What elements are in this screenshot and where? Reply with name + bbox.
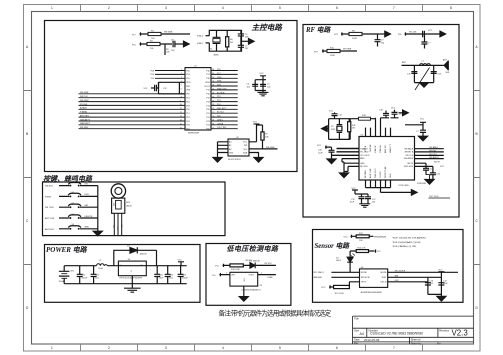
ground bypass (258, 92, 269, 95)
svg-text:R16 470K: R16 470K (231, 269, 241, 271)
svg-text:RF VCC: RF VCC (265, 263, 273, 265)
svg-text:5: 5 (279, 346, 281, 350)
svg-text:21: 21 (212, 112, 214, 114)
svg-text:D2 1N4148: D2 1N4148 (250, 260, 261, 262)
MCU left short pin wires (155, 71, 185, 79)
svg-text:A4: A4 (360, 332, 364, 336)
wire lv in (219, 273, 230, 276)
svg-text:VCC: VCC (144, 88, 149, 90)
svg-text:R11: R11 (352, 125, 356, 127)
svg-text:C?: C? (428, 42, 431, 44)
svg-text:8: 8 (181, 96, 182, 98)
svg-text:7: 7 (393, 346, 395, 350)
wire vcc cap loop (255, 76, 266, 93)
svg-text:15: 15 (180, 124, 182, 126)
node VCC ic topright (405, 119, 426, 137)
svg-text:22: 22 (212, 108, 214, 110)
svg-text:BC SCL: BC SCL (217, 112, 225, 114)
svg-text:28: 28 (212, 85, 214, 87)
svg-text:GND: GND (390, 173, 392, 178)
svg-text:TRTS: TRTS (361, 282, 367, 284)
svg-text:RESET A: RESET A (405, 151, 414, 154)
svg-text:SPI MOSI: SPI MOSI (361, 277, 370, 279)
svg-text:B: B (476, 132, 478, 136)
svg-text:16: 16 (180, 127, 182, 129)
svg-text:Revision: Revision (439, 328, 450, 332)
svg-text:104: 104 (381, 42, 385, 44)
inductor L1 (420, 60, 431, 65)
svg-text:VCC: VCC (253, 122, 258, 124)
SENSOR BLOCK (313, 230, 464, 303)
svg-text:P20: P20 (206, 109, 210, 111)
svg-text:P16: P16 (132, 44, 136, 46)
svg-text:6: 6 (336, 346, 338, 350)
wire xtal out (241, 40, 249, 42)
svg-text:FUN: FUN (85, 194, 90, 196)
svg-text:ANT KB/1: ANT KB/1 (80, 115, 90, 118)
svg-text:R15 150K: R15 150K (335, 293, 345, 295)
svg-text:RST: RST (186, 86, 191, 88)
svg-text:XGCLK: XGCLK (380, 171, 382, 178)
wire lna links (332, 148, 360, 155)
svg-text:RF RST: RF RST (429, 150, 437, 152)
svg-text:2: 2 (108, 346, 110, 350)
svg-text:WK BTN: WK BTN (45, 186, 53, 188)
svg-text:SPI CLK: SPI CLK (406, 155, 414, 157)
wire switch bus (97, 186, 99, 232)
capacitor C4 104 (247, 84, 259, 89)
svg-text:C5: C5 (267, 84, 270, 86)
svg-text:10K: 10K (265, 136, 269, 138)
capacitor C23 104 (91, 266, 100, 284)
svg-text:D: D (476, 306, 479, 310)
svg-text:Drawn by:: Drawn by: (411, 342, 422, 345)
capacitor C18 (379, 110, 389, 118)
svg-text:BZ1: BZ1 (126, 202, 131, 204)
op IC U5 detector (230, 272, 263, 291)
wire lv out (258, 274, 276, 276)
svg-text:3: 3 (165, 6, 167, 10)
resistor R6 1M (226, 30, 234, 51)
svg-text:WK KB/B: WK KB/B (266, 147, 275, 149)
svg-text:POWER 电路: POWER 电路 (46, 245, 88, 254)
MCU left pin names (186, 70, 191, 130)
svg-text:50R: 50R (446, 72, 450, 74)
capacitor C6 20P (238, 30, 249, 38)
svg-text:*R13? 16K(324.6K) 3.9K AA(96K: *R13? 16K(324.6K) 3.9K AA(96K)? (392, 237, 427, 240)
svg-text:WP: WP (244, 145, 248, 147)
MCU left wire labels (80, 92, 91, 129)
wire xtal2 (206, 35, 210, 37)
svg-text:AGSNPNM BGM A3M0: AGSNPNM BGM A3M0 (361, 291, 383, 294)
svg-text:A: A (476, 45, 479, 49)
svg-text:P56: P56 (186, 70, 190, 72)
svg-text:D3: D3 (336, 257, 339, 259)
svg-text:104: 104 (247, 86, 251, 88)
svg-text:SCL: SCL (244, 149, 249, 151)
svg-text:P3 CHK: P3 CHK (80, 104, 88, 106)
svg-text:备注:带*的元器件为选用或根据具体情况选定: 备注:带*的元器件为选用或根据具体情况选定 (219, 308, 332, 317)
titleblock verticals (367, 328, 438, 344)
wire sens right pins (388, 272, 458, 282)
svg-text:P22: P22 (206, 117, 210, 119)
NOTE + TITLEBLOCK (219, 308, 474, 345)
antenna tank loop wire (414, 65, 433, 82)
svg-text:VCC: VCC (317, 145, 322, 147)
capacitor C22 100uF (77, 266, 88, 284)
svg-text:CHN A: CHN A (217, 122, 224, 125)
svg-text:SPC NMO1: SPC NMO1 (313, 272, 324, 274)
svg-text:L1: L1 (422, 60, 425, 62)
svg-text:R14 4.7K: R14 4.7K (357, 248, 366, 250)
capacitor C13 104 (425, 280, 434, 285)
svg-text:VO: VO (140, 265, 143, 267)
reset loop wire (159, 82, 186, 94)
svg-text:19: 19 (212, 120, 214, 122)
svg-text:1: 1 (51, 6, 53, 10)
svg-text:ANT: ANT (443, 58, 448, 61)
svg-text:B?+: B?+ (213, 275, 217, 277)
svg-text:XTAL2: XTAL2 (197, 35, 204, 38)
svg-text:18: 18 (212, 124, 214, 126)
svg-text:P21: P21 (206, 113, 210, 115)
zone tick left (24, 91, 32, 265)
svg-text:C21: C21 (428, 169, 433, 171)
net arrow xtal rf (322, 126, 328, 132)
svg-text:20: 20 (212, 116, 214, 118)
svg-text:AND VD: AND VD (384, 145, 387, 153)
ground rf right (425, 180, 434, 185)
svg-text:4N8 BM6: 4N8 BM6 (313, 277, 322, 279)
svg-text:WK ADDR: WK ADDR (429, 156, 439, 159)
svg-text:104: 104 (267, 86, 271, 88)
svg-text:C: C (26, 219, 29, 223)
svg-text:A0: A0 (229, 141, 232, 144)
svg-text:XBB AB P3: XBB AB P3 (80, 118, 91, 121)
buzzer BZ1 (111, 184, 132, 235)
wire power bottom (64, 283, 187, 285)
svg-text:1M: 1M (230, 42, 233, 44)
svg-text:13: 13 (180, 116, 182, 118)
wire to arrow (175, 43, 184, 45)
svg-text:100R: 100R (330, 55, 335, 57)
wire eeprom left bus (218, 142, 229, 158)
svg-text:100uF: 100uF (182, 277, 188, 279)
svg-text:RF 电路: RF 电路 (305, 26, 331, 34)
svg-text:RF SMB: RF SMB (365, 170, 367, 178)
svg-text:104: 104 (169, 277, 173, 279)
svg-text:S-8: S-8 (244, 278, 246, 282)
svg-text:PKB KLN1: PKB KLN1 (217, 88, 227, 90)
resistor R15 150K (321, 282, 349, 295)
svg-text:FUN/B: FUN/B (45, 196, 52, 198)
RF BLOCK (303, 25, 459, 218)
svg-text:32M: 32M (331, 129, 335, 131)
resistor R18 (359, 117, 371, 120)
switch S2 (45, 192, 98, 198)
svg-text:1M: 1M (352, 128, 355, 130)
wire stub down (164, 44, 166, 55)
svg-text:5: 5 (181, 85, 182, 87)
svg-text:10uF: 10uF (159, 277, 164, 279)
svg-text:C9: C9 (381, 40, 384, 42)
crystal loop rf wire (329, 119, 351, 140)
net arrow bottom (411, 190, 417, 196)
svg-text:SB XX: SB XX (434, 162, 441, 164)
svg-text:VCC: VCC (438, 269, 443, 271)
svg-text:VCC: VCC (260, 73, 265, 75)
svg-text:10: 10 (180, 104, 182, 106)
net arrow rf2 (440, 31, 446, 37)
wire sens row1 (351, 235, 374, 238)
ground eeprom right (254, 158, 263, 163)
wire xtal1 (206, 42, 210, 44)
svg-text:C22: C22 (82, 275, 87, 277)
svg-text:WK KB/B: WK KB/B (164, 31, 173, 33)
svg-text:AGE Y AN: AGE Y AN (369, 168, 372, 178)
svg-text:100uF: 100uF (82, 277, 88, 279)
op IC U2 EEPROM (228, 139, 249, 156)
svg-text:OSC B: OSC B (380, 282, 387, 284)
wire rf row2 (322, 49, 357, 52)
svg-text:C17: C17 (338, 114, 343, 116)
svg-text:3V AA: 3V AA (59, 280, 65, 283)
wire bottom join (366, 188, 412, 193)
svg-text:P16: P16 (206, 78, 210, 80)
diode D2 1N4148 (250, 260, 276, 268)
svg-text:Sheet of: Sheet of (411, 338, 421, 342)
svg-text:(BUZ): (BUZ) (126, 206, 132, 208)
svg-text:XIN2: XIN2 (205, 82, 210, 84)
svg-text:A2/AB1: A2/AB1 (80, 107, 88, 110)
svg-text:MODE: MODE (381, 272, 388, 274)
block box key (43, 182, 226, 236)
svg-text:C12: C12 (163, 88, 168, 90)
svg-text:C22: C22 (437, 173, 442, 175)
svg-text:TEST: TEST (381, 277, 387, 279)
svg-text:TEST PT AN: TEST PT AN (384, 166, 387, 178)
svg-text:P54: P54 (150, 74, 154, 76)
wire row2 (140, 42, 173, 45)
svg-text:104: 104 (372, 201, 376, 203)
trimmer arrow (415, 68, 430, 91)
svg-text:WK ABLE: WK ABLE (429, 146, 438, 149)
svg-text:SPC MODE: SPC MODE (395, 270, 406, 272)
svg-text:主控电路: 主控电路 (252, 23, 284, 32)
svg-text:SBB BF/P1: SBB BF/P1 (80, 123, 91, 125)
svg-text:XTAL1: XTAL1 (197, 42, 204, 45)
svg-text:25: 25 (212, 96, 214, 98)
svg-text:ABT T/GN: ABT T/GN (45, 217, 55, 220)
svg-text:24: 24 (212, 100, 214, 102)
svg-text:5: 5 (279, 6, 281, 10)
svg-text:THB 23.01: THB 23.01 (375, 168, 377, 178)
wire rf row1 (341, 32, 378, 35)
wire row1 (140, 32, 191, 35)
svg-text:1N4148: 1N4148 (140, 254, 148, 256)
wire xtal to ic (350, 117, 383, 120)
svg-text:VSS: VSS (229, 152, 234, 154)
wire eeprom vcc (249, 124, 257, 142)
svg-text:6: 6 (336, 6, 338, 10)
capacitor C21 (430, 166, 441, 179)
crystal X1 4MHz (210, 30, 220, 51)
svg-text:RF VDD: RF VDD (360, 166, 368, 168)
svg-text:P11: P11 (206, 90, 210, 92)
svg-text:C16: C16 (438, 73, 443, 75)
svg-text:*R13 3 HK(HP)AA R (Y)/0.6K: *R13 3 HK(HP)AA R (Y)/0.6K (392, 241, 421, 244)
svg-text:9: 9 (180, 100, 181, 102)
RF IC left pin wires (332, 149, 360, 167)
svg-text:VCC: VCC (334, 34, 339, 36)
net arrow xtal (249, 39, 255, 45)
capacitor C9 (375, 34, 386, 47)
svg-text:8: 8 (450, 6, 452, 10)
RF IC bottom pin names (365, 166, 392, 178)
svg-text:GND: GND (360, 163, 365, 165)
capacitor C20 (423, 163, 433, 174)
ground sensor (437, 296, 446, 301)
block box lowvolt (206, 244, 291, 306)
svg-text:Y55: Y55 (150, 78, 154, 80)
ground regulator (124, 288, 141, 292)
svg-text:WK(KB/BQE): WK(KB/BQE) (374, 236, 386, 238)
svg-text:2012-05-09: 2012-05-09 (364, 338, 380, 342)
capacitor C14 10uF (438, 280, 448, 285)
svg-text:10uF: 10uF (350, 201, 355, 203)
svg-text:VCC: VCC (377, 251, 382, 253)
wire sens caps loop (428, 272, 442, 297)
block box 主控电路 (45, 21, 298, 172)
zone tick right (474, 91, 481, 265)
svg-text:GND RF: GND RF (370, 144, 372, 152)
svg-text:低电压检测电路: 低电压检测电路 (227, 244, 279, 253)
capacitor C26 100uF (178, 266, 189, 284)
svg-text:WK SEN: WK SEN (80, 127, 88, 129)
svg-text:A1: A1 (229, 144, 232, 147)
MCU right pin wires (211, 71, 238, 129)
svg-text:P17: P17 (206, 74, 210, 76)
op IC U1 MCU (185, 68, 211, 130)
resistor R8 (349, 32, 362, 35)
svg-text:20P: 20P (245, 48, 249, 50)
svg-text:P54: P54 (186, 74, 190, 76)
ground switch bus (93, 231, 102, 236)
svg-text:31: 31 (212, 73, 214, 75)
note text (392, 237, 427, 248)
svg-text:LED4: LED4 (336, 260, 342, 262)
svg-text:VCC: VCC (344, 236, 349, 238)
svg-text:R6: R6 (230, 39, 233, 41)
svg-text:Date:: Date: (354, 337, 360, 341)
ground lv (239, 297, 248, 302)
svg-text:29: 29 (212, 81, 214, 83)
resistor R12 (356, 233, 369, 242)
svg-text:104: 104 (430, 283, 434, 285)
svg-text:C34: C34 (318, 150, 323, 152)
capacitor C12 (155, 85, 157, 91)
net arrow BZ (184, 41, 190, 47)
svg-text:G: G (131, 270, 133, 272)
ground antenna tank (420, 83, 429, 88)
zone tick top (81, 5, 423, 12)
svg-text:12: 12 (180, 112, 182, 114)
capacitor C15 (407, 72, 417, 76)
block box RF (303, 25, 459, 218)
wire eeprom gnd (249, 153, 259, 158)
svg-text:SN8P2602B: SN8P2602B (188, 133, 200, 135)
wire lv gnd (243, 286, 245, 297)
svg-text:MODE: MODE (361, 272, 368, 274)
resistor R10 (327, 49, 340, 52)
op IC U3 RF (359, 137, 415, 181)
svg-text:SDA: SDA (243, 151, 248, 154)
svg-text:OSC: OSC (395, 280, 400, 282)
capacitor C10 (423, 31, 425, 37)
svg-text:VIN: VIN (231, 275, 235, 277)
op IC U4 regulator (118, 259, 146, 279)
svg-text:7: 7 (181, 93, 182, 95)
svg-text:P14: P14 (206, 105, 210, 107)
block box sensor (313, 230, 464, 303)
svg-text:BT1: BT1 (71, 270, 76, 272)
svg-text:DELETE: DELETE (85, 216, 93, 218)
KEY/BUZZER BLOCK (43, 174, 226, 236)
svg-text:104: 104 (95, 277, 99, 279)
svg-text:R7: R7 (265, 134, 268, 136)
svg-text:C15: C15 (407, 73, 412, 75)
svg-text:B: B (26, 132, 28, 136)
svg-text:1: 1 (51, 346, 53, 350)
svg-text:10uF: 10uF (318, 152, 323, 154)
svg-text:P07: P07 (314, 51, 318, 53)
svg-text:P01: P01 (186, 98, 190, 100)
svg-text:CHN L: CHN L (217, 120, 224, 122)
svg-text:P13: P13 (206, 101, 210, 103)
capacitor C12b 104 (365, 197, 376, 204)
svg-text:C4: C4 (247, 84, 250, 86)
svg-text:VCC: VCC (440, 166, 445, 168)
svg-text:*R13 (CABNHL) (1) 16B: *R13 (CABNHL) (1) 16B (392, 245, 416, 248)
svg-text:3: 3 (165, 346, 167, 350)
svg-text:U5: U5 (260, 285, 263, 287)
wire eeprom sda out (249, 148, 278, 150)
svg-text:P55: P55 (186, 78, 190, 80)
svg-text:L2: L2 (99, 260, 102, 262)
wire sens left pins (331, 272, 359, 282)
svg-text:VCC: VCC (391, 107, 396, 109)
svg-text:100R: 100R (352, 38, 357, 40)
svg-text:R9+10K: R9+10K (409, 32, 417, 34)
RF IC left pin names (360, 147, 370, 168)
svg-text:3: 3 (181, 77, 182, 79)
svg-text:C25: C25 (169, 275, 174, 277)
svg-text:WK ABLE: WK ABLE (404, 147, 413, 150)
svg-text:4MHz: 4MHz (214, 55, 219, 57)
capacitor C24 10uF (154, 266, 164, 284)
RF IC top pin names (365, 143, 392, 153)
svg-text:C23: C23 (95, 275, 100, 277)
svg-text:X2: X2 (331, 126, 334, 128)
svg-text:1: 1 (181, 69, 182, 71)
svg-text:BSG VDD: BSG VDD (404, 166, 414, 168)
svg-text:C?: C? (416, 131, 419, 133)
ground rfleft (340, 173, 349, 178)
svg-text:LNA B YT: LNA B YT (389, 143, 392, 153)
svg-text:VCC: VCC (420, 119, 425, 121)
svg-text:VCO VDD: VCO VDD (360, 155, 370, 157)
svg-text:P52: P52 (186, 117, 190, 119)
